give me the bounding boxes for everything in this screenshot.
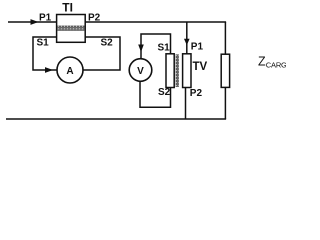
svg-text:S2: S2	[158, 87, 171, 98]
svg-text:Z: Z	[258, 55, 266, 69]
arrowhead: secondary current into ammeter	[45, 67, 53, 73]
wire: load to return line	[224, 87, 226, 119]
load Zcarga body	[221, 54, 229, 87]
transformer TV primary winding	[183, 54, 191, 88]
svg-text:S1: S1	[37, 38, 50, 49]
wire: source line into TI primary	[8, 21, 57, 23]
wire: ammeter back to TI S2	[83, 37, 121, 70]
wire: TI S1 down to ammeter loop	[33, 37, 58, 70]
wire: bottom return line	[6, 118, 226, 120]
svg-text:P1: P1	[39, 13, 52, 24]
TV core strip	[176, 54, 179, 87]
wire: line down to load	[224, 22, 226, 54]
wire: voltmeter bottom back to TV S2	[140, 81, 171, 107]
voltmeter V	[129, 59, 152, 82]
wire: TI P2 to load branch	[85, 21, 226, 23]
svg-text:CARGA: CARGA	[266, 61, 286, 70]
ammeter A	[57, 57, 83, 83]
transformer TI body	[57, 15, 86, 43]
arrowhead: into voltmeter	[138, 45, 144, 53]
transformer TV secondary winding	[166, 54, 174, 88]
svg-text:S1: S1	[158, 43, 171, 54]
arrowhead: into TV primary	[184, 39, 190, 45]
wire: TV P2 down to return line	[185, 88, 187, 120]
svg-text:A: A	[66, 66, 73, 77]
svg-text:P1: P1	[191, 42, 204, 53]
arrowhead: line current direction	[31, 19, 39, 25]
wire: TV secondary loop top to voltmeter	[141, 34, 171, 59]
TI core band	[57, 26, 84, 31]
svg-text:P2: P2	[190, 88, 203, 99]
svg-text:S2: S2	[101, 38, 114, 49]
wire: line tap down to TV P1	[186, 22, 188, 54]
svg-text:TV: TV	[193, 61, 208, 73]
svg-text:V: V	[137, 66, 144, 77]
svg-text:TI: TI	[62, 1, 73, 15]
